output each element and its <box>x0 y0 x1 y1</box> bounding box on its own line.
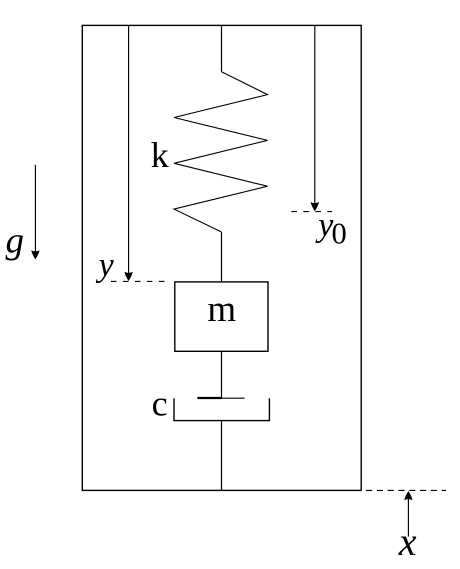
svg-text:0: 0 <box>332 216 347 250</box>
svg-text:k: k <box>151 135 169 175</box>
svg-text:m: m <box>207 289 236 330</box>
svg-text:y: y <box>96 247 115 284</box>
svg-text:x: x <box>398 519 417 564</box>
svg-text:g: g <box>6 220 25 261</box>
svg-text:c: c <box>152 383 168 423</box>
